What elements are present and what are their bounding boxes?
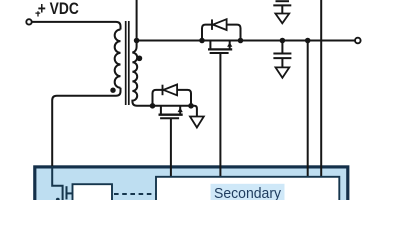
- junction dots output rail: [280, 38, 311, 44]
- body diode D1 loop: [202, 25, 241, 41]
- capacitor C1 (top, cropped): [273, 1, 291, 13]
- dashed link: [114, 193, 156, 195]
- ground (C1): [275, 14, 289, 24]
- output terminal: [355, 38, 361, 44]
- wire: primary return inside box with jog: [52, 166, 62, 200]
- small subscript plus mark: [35, 11, 40, 16]
- Q2 gate lead: [170, 118, 172, 177]
- wire: from top edge down to controller: [320, 0, 322, 177]
- wire: Q2 source jog to ground: [191, 106, 197, 117]
- Secondary block: [156, 177, 339, 205]
- wire: Vout sense down to controller: [307, 41, 309, 178]
- inside controller box: [52, 166, 339, 205]
- junction: secondary tap node: [134, 38, 140, 44]
- wire: VDC input to primary top: [32, 22, 121, 30]
- small controller sub-block: [73, 184, 113, 204]
- input terminal: [26, 19, 31, 24]
- capacitor C2: [273, 41, 291, 68]
- transformer core: [126, 21, 129, 105]
- svg-text:Secondary: Secondary: [214, 185, 281, 200]
- svg-text:+ VDC: + VDC: [38, 0, 79, 18]
- transformer primary winding: [115, 30, 121, 88]
- transformer secondary winding + top lead: [132, 0, 152, 106]
- cropped stub: [56, 198, 60, 202]
- wire: output rail: [241, 40, 356, 42]
- secondary phase dot: [137, 55, 143, 61]
- text highlight: [211, 184, 285, 201]
- coupling capacitor plate: [66, 186, 68, 199]
- junction dots Q2: [150, 103, 194, 109]
- wire: primary bottom return: [52, 88, 120, 167]
- ground (C2): [276, 67, 290, 77]
- primary phase dot: [110, 88, 115, 93]
- diode D1: [212, 19, 227, 30]
- MOSFET Q2: [159, 106, 183, 119]
- body diode D2 loop: [153, 90, 192, 106]
- wire: tap to SR mosfet Q1: [137, 40, 202, 42]
- junction dots Q1: [199, 38, 243, 44]
- wire: Q1 drain-source rail: [202, 40, 241, 42]
- Q1 gate lead: [219, 53, 221, 177]
- ground (Q2 source): [190, 117, 204, 128]
- diode D2: [163, 85, 178, 96]
- capacitor lead to block: [67, 192, 73, 194]
- label + VDC: [38, 0, 79, 18]
- secondary-side controller box (blue): [35, 167, 348, 207]
- MOSFET Q1: [208, 41, 232, 54]
- wire: Q2 rail (secondary bottom to right): [153, 105, 192, 107]
